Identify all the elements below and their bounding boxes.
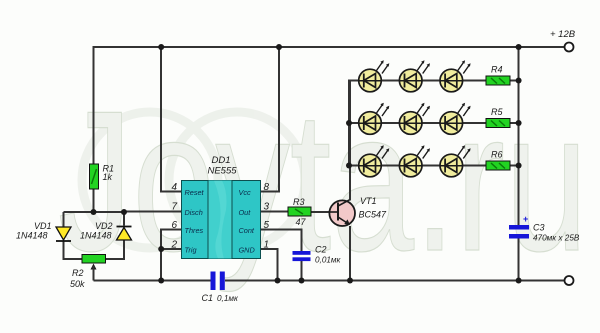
resistor R5 bbox=[486, 119, 510, 128]
terminal +12V bbox=[565, 43, 574, 52]
LED HL4 (row 2 col 1) bbox=[359, 103, 390, 135]
LED HL2 (row 1 col 2) bbox=[399, 60, 430, 92]
wire: pin8 riser bbox=[261, 47, 280, 192]
capacitor C1 bbox=[211, 272, 225, 291]
wire: pin3 to R3 bbox=[261, 211, 289, 213]
wire: LED row1 bbox=[349, 80, 486, 82]
wire: pins 6 and 2 tie bbox=[161, 230, 181, 281]
svg-text:Out: Out bbox=[239, 208, 252, 217]
wire: top +12V rail bbox=[94, 47, 565, 212]
wire: ground rail left of C1 bbox=[94, 280, 211, 282]
wire: LED row2 bbox=[349, 122, 486, 124]
svg-text:8: 8 bbox=[264, 182, 270, 193]
svg-text:R6: R6 bbox=[491, 150, 503, 160]
resistor R6 bbox=[486, 161, 510, 170]
svg-text:DD1: DD1 bbox=[211, 155, 230, 166]
svg-text:C2: C2 bbox=[315, 245, 327, 255]
svg-text:7: 7 bbox=[171, 202, 177, 213]
watermark rings bbox=[82, 112, 305, 248]
svg-text:C3: C3 bbox=[533, 223, 545, 233]
svg-text:BC547: BC547 bbox=[359, 210, 388, 220]
terminal ground out bbox=[565, 276, 574, 285]
wire: C2 bottom to rail bbox=[301, 261, 303, 281]
svg-text:VD1: VD1 bbox=[34, 221, 52, 231]
wire: pin1 GND to rail bbox=[261, 249, 278, 281]
wire: R5 to right rail bbox=[510, 122, 519, 124]
svg-text:0,1мк: 0,1мк bbox=[217, 294, 239, 303]
svg-text:Disch: Disch bbox=[185, 208, 203, 217]
svg-text:3: 3 bbox=[264, 202, 270, 213]
wire: emitter to ground rail bbox=[349, 226, 351, 281]
svg-text:R5: R5 bbox=[491, 107, 503, 117]
svg-text:Cont: Cont bbox=[239, 226, 255, 235]
LED HL7 (row 3 col 1) bbox=[359, 145, 390, 177]
potentiometer R2 bbox=[82, 255, 106, 281]
svg-text:Reset: Reset bbox=[185, 188, 205, 197]
wire: VD2 branch bbox=[123, 212, 125, 226]
svg-text:1N4148: 1N4148 bbox=[16, 231, 48, 241]
svg-text:Thres: Thres bbox=[185, 226, 204, 235]
resistor R1 bbox=[90, 164, 99, 189]
wire: R2 wiper to ground rail bbox=[93, 266, 95, 281]
capacitor C3 bbox=[509, 214, 529, 239]
svg-text:2: 2 bbox=[170, 240, 177, 251]
svg-text:50k: 50k bbox=[70, 279, 85, 289]
svg-text:+: + bbox=[523, 214, 528, 224]
wire: LED matrix left rail bbox=[349, 81, 350, 166]
op IC DD1 NE555 bbox=[182, 181, 261, 259]
wire: C3 to ground rail bbox=[518, 239, 520, 281]
wire: R6 to right rail bbox=[510, 165, 519, 167]
svg-text:1k: 1k bbox=[103, 172, 113, 182]
svg-text:4: 4 bbox=[171, 182, 177, 193]
LED HL5 (row 2 col 2) bbox=[399, 103, 430, 135]
svg-text:1N4148: 1N4148 bbox=[80, 231, 112, 241]
svg-text:NE555: NE555 bbox=[207, 166, 237, 177]
transistor VT1 bbox=[329, 200, 355, 226]
LED HL9 (row 3 col 3) bbox=[440, 145, 471, 177]
LED HL8 (row 3 col 2) bbox=[399, 145, 430, 177]
diode VD2 bbox=[117, 227, 132, 241]
LED HL1 (row 1 col 1) bbox=[359, 60, 390, 92]
resistor R3 bbox=[288, 207, 311, 216]
resistor R4 bbox=[486, 76, 510, 85]
LED HL6 (row 2 col 3) bbox=[440, 103, 471, 135]
wire: R3 to base bbox=[311, 211, 330, 213]
wire: net A (pin7/diodes/R1) bbox=[64, 211, 182, 214]
svg-text:VT1: VT1 bbox=[360, 196, 377, 206]
svg-text:Trig: Trig bbox=[185, 246, 197, 255]
LED HL3 (row 1 col 3) bbox=[440, 60, 471, 92]
svg-text:R2: R2 bbox=[72, 268, 84, 278]
svg-text:1: 1 bbox=[264, 240, 270, 251]
svg-text:6: 6 bbox=[171, 220, 177, 231]
wire: collector to LED rail bbox=[349, 81, 351, 201]
wire: right rail top to C3 bbox=[518, 47, 520, 225]
wire: LED row3 bbox=[349, 165, 486, 167]
wire: pin4 riser bbox=[161, 47, 181, 192]
wire: R4 to right rail bbox=[510, 80, 519, 82]
wire: VD1 branch bbox=[63, 212, 65, 227]
wire: pin5 to C2 bbox=[261, 230, 302, 252]
svg-text:R3: R3 bbox=[293, 197, 305, 207]
svg-text:5: 5 bbox=[264, 220, 270, 231]
svg-text:GND: GND bbox=[239, 246, 256, 255]
diode VD1 bbox=[56, 227, 71, 241]
svg-text:Vcc: Vcc bbox=[239, 188, 252, 197]
capacitor C2 bbox=[293, 251, 311, 261]
svg-text:C1: C1 bbox=[202, 293, 214, 303]
svg-text:470мк x 25В: 470мк x 25В bbox=[533, 234, 580, 243]
wire: ground rail right of C1 bbox=[225, 280, 564, 282]
svg-text:0,01мк: 0,01мк bbox=[315, 256, 342, 265]
svg-text:47: 47 bbox=[296, 217, 307, 227]
svg-text:VD2: VD2 bbox=[95, 221, 113, 231]
svg-text:+ 12В: + 12В bbox=[550, 29, 576, 40]
svg-text:R4: R4 bbox=[491, 65, 503, 75]
